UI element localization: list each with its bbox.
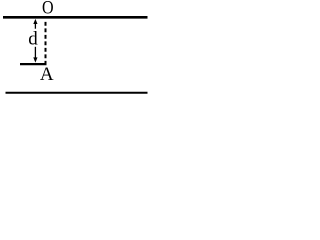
svg-text:d: d [28,29,38,50]
top support line [3,16,148,19]
bottom ground line [6,92,148,94]
dimension arrow upper shaft [34,23,36,29]
dashed drop line from O to A [45,22,47,65]
dimension arrow lower head [33,57,37,62]
svg-text:O: O [42,0,54,19]
ledge line at A [20,63,47,65]
dimension arrow lower shaft [34,47,36,58]
svg-text:A: A [40,64,54,85]
dimension arrow upper head [33,19,37,24]
